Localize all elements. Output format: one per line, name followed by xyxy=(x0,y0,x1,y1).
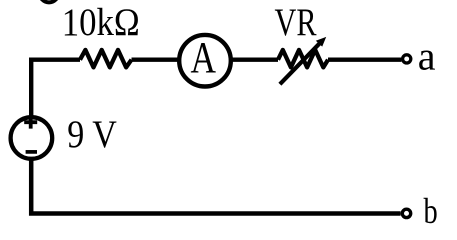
partial circle (cropped circled number at top edge) xyxy=(40,0,59,2)
wire: ammeter to VR xyxy=(229,58,278,62)
plus sign xyxy=(24,116,37,129)
variable resistor VR zigzag xyxy=(278,50,328,68)
svg-text:9 V: 9 V xyxy=(67,112,117,156)
wire: resistor to ammeter xyxy=(132,58,182,62)
minus sign xyxy=(26,150,37,154)
ammeter U1 circle xyxy=(179,35,231,87)
VR arrow shaft xyxy=(280,44,320,85)
voltage source V1 circle xyxy=(11,117,53,159)
resistor R 10kΩ zigzag xyxy=(80,50,132,68)
wire: top-left corner (vertical drop + horizontal run to resistor) xyxy=(31,60,80,117)
svg-text:10kΩ: 10kΩ xyxy=(62,0,140,44)
wire: VR to terminal a xyxy=(328,58,401,62)
VR arrowhead xyxy=(316,37,326,47)
terminal a (open circle) xyxy=(403,55,411,63)
svg-text:A: A xyxy=(191,32,217,82)
terminal b (open circle) xyxy=(402,209,410,217)
wire: source bottom + bottom run to terminal b xyxy=(31,159,400,214)
svg-text:b: b xyxy=(424,191,438,230)
svg-text:a: a xyxy=(418,34,436,79)
svg-text:VR: VR xyxy=(275,0,317,44)
